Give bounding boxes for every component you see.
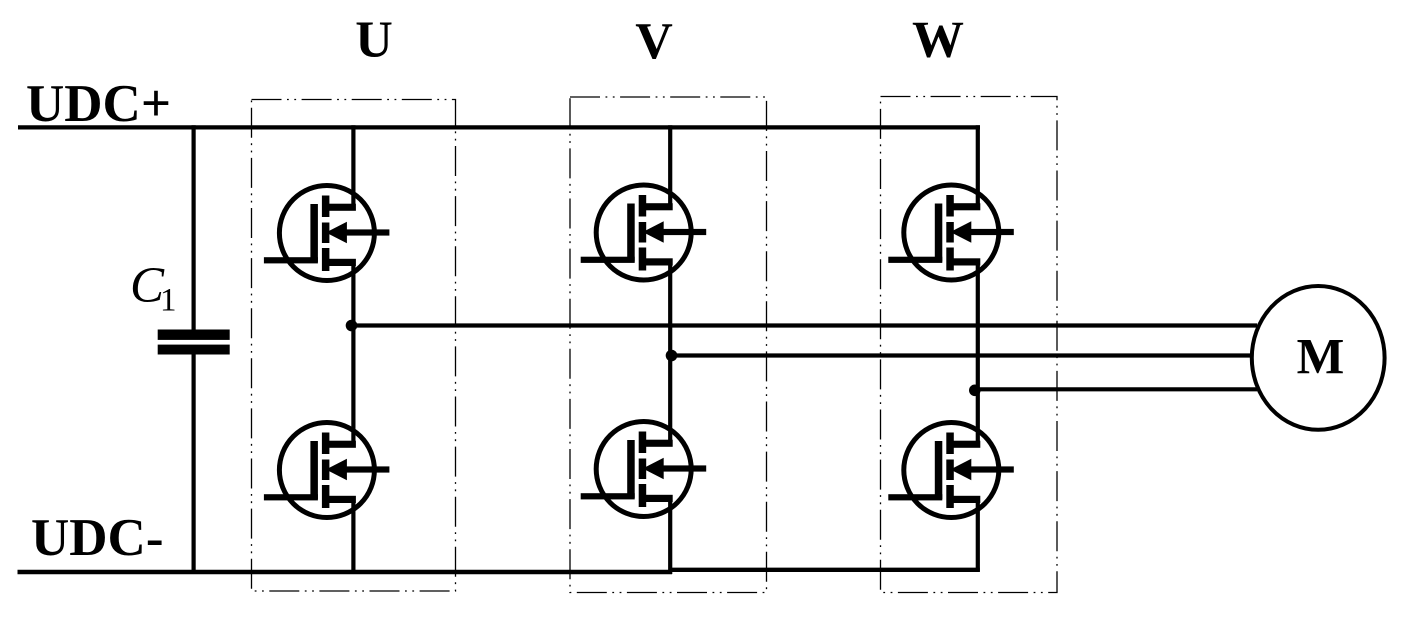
svg-text:UDC-: UDC- (31, 509, 163, 567)
wire source lead of upper MOSFET U (351, 262, 355, 328)
wire DC- bus rail right segment (672, 568, 980, 572)
wire source lead of upper MOSFET V (668, 261, 672, 357)
transistor V3 upper MOSFET of phase V (581, 185, 707, 280)
svg-text:W: W (912, 12, 964, 69)
svg-text:U: U (355, 12, 393, 69)
wire capacitor C1 bottom lead (192, 354, 196, 574)
phase module outline W (dash-dot box) (881, 97, 1058, 593)
transistor V1 upper MOSFET of phase U (264, 186, 390, 281)
junction node V (666, 350, 678, 362)
junction node U (346, 320, 358, 332)
wire drain lead of lower MOSFET U (351, 324, 355, 444)
wire source lead of lower MOSFET U (351, 499, 355, 574)
svg-text:V: V (635, 13, 673, 70)
wire drain lead of upper MOSFET W (976, 125, 980, 207)
transistor V6 lower MOSFET of phase W (888, 423, 1014, 518)
svg-text:UDC+: UDC+ (26, 75, 171, 133)
transistor V2 lower MOSFET of phase U (264, 423, 390, 518)
wire DC- bus rail left segment (18, 570, 673, 574)
wire drain lead of lower MOSFET W (976, 389, 980, 444)
junction node W (969, 385, 981, 397)
svg-text:M: M (1297, 329, 1345, 385)
transistor V4 lower MOSFET of phase V (581, 422, 707, 517)
svg-text:1: 1 (160, 283, 177, 319)
wire phase W output line to motor (978, 387, 1257, 391)
motor M circle (1252, 286, 1385, 430)
capacitor C1 (158, 330, 230, 355)
wire drain lead of lower MOSFET V (668, 354, 672, 443)
wire source lead of lower MOSFET W (976, 499, 980, 572)
wire DC+ bus rail (18, 125, 980, 129)
transistor V5 upper MOSFET of phase W (888, 185, 1014, 280)
phase module outline V (dash-dot box) (570, 97, 767, 593)
wire source lead of lower MOSFET V (668, 498, 672, 575)
wire drain lead of upper MOSFET V (668, 125, 672, 207)
wire drain lead of upper MOSFET U (351, 125, 355, 208)
wire phase U output line to motor (353, 323, 1257, 327)
phase module outline U (dash-dot box) (252, 100, 456, 592)
wire capacitor C1 top lead (192, 125, 196, 331)
wire phase V output line to motor (670, 353, 1251, 357)
wire source lead of upper MOSFET W (976, 261, 980, 392)
